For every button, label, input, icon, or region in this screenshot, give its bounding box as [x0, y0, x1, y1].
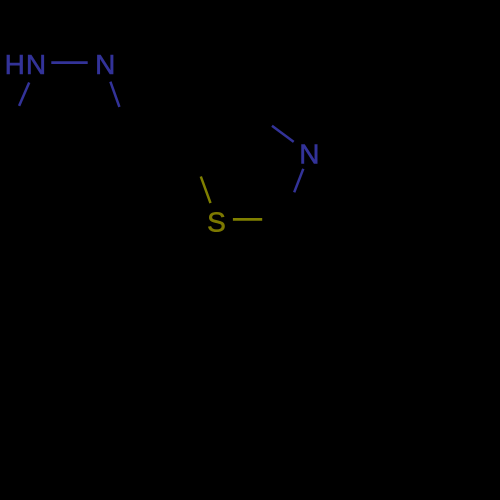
svg-text:N: N	[95, 49, 115, 80]
svg-text:N: N	[26, 49, 46, 80]
svg-text:N: N	[299, 138, 319, 169]
svg-text:S: S	[207, 206, 226, 237]
svg-text:H: H	[5, 49, 25, 80]
